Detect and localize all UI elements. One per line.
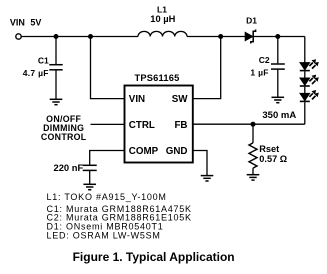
- svg-text:SW: SW: [172, 94, 189, 105]
- wire CTRL: [91, 123, 125, 125]
- wire Rset to ground: [252, 168, 254, 174]
- inductor L1: [138, 31, 187, 36]
- svg-text:CONTROL: CONTROL: [41, 132, 87, 142]
- ground C1: [50, 99, 63, 104]
- svg-text:4.7 µF: 4.7 µF: [23, 68, 49, 78]
- resistor Rset: [249, 143, 257, 168]
- node junction VIN pin: [88, 34, 93, 39]
- wire C1 branch: [55, 37, 57, 65]
- wire Rset top: [252, 124, 254, 143]
- capacitor C1: [49, 64, 62, 66]
- capacitor C3 220nF: [83, 164, 97, 166]
- input terminal VIN: [16, 34, 21, 39]
- op-amp U1 TPS61165 box: [125, 86, 193, 163]
- wire C2 branch: [277, 37, 279, 64]
- diode D1 (Schottky): [245, 32, 253, 40]
- ground C2: [272, 97, 285, 102]
- svg-text:CTRL: CTRL: [129, 120, 155, 131]
- wire input to inductor: [21, 36, 138, 38]
- svg-text:VIN: VIN: [10, 18, 25, 28]
- node junction C1: [54, 34, 59, 39]
- ground Rset: [247, 175, 260, 180]
- svg-text:220 nF: 220 nF: [53, 162, 83, 173]
- LED D4: [300, 91, 319, 102]
- ground GND pin: [201, 176, 214, 181]
- wire FB rail: [193, 123, 305, 125]
- svg-text:LED: OSRAM LW-W5SM: LED: OSRAM LW-W5SM: [47, 230, 161, 240]
- svg-text:Rset: Rset: [259, 144, 279, 154]
- svg-text:D1: D1: [246, 16, 257, 26]
- wire 220nF to ground: [89, 170, 91, 184]
- wire VIN pin: [91, 37, 125, 99]
- svg-text:0.57 Ω: 0.57 Ω: [259, 154, 287, 164]
- wire LED string top: [304, 37, 306, 63]
- svg-text:C2: C2: [259, 55, 270, 65]
- node junction SW: [218, 34, 223, 39]
- wire C1 to ground: [55, 70, 57, 99]
- wire diode to LED branch: [253, 36, 305, 38]
- node junction C2: [275, 34, 280, 39]
- svg-text:C1: C1: [38, 55, 49, 65]
- ground 220nF: [83, 184, 96, 189]
- wire SW: [193, 37, 221, 99]
- svg-text:Figure 1. Typical Application: Figure 1. Typical Application: [73, 250, 235, 264]
- wire LED2-LED3: [304, 87, 306, 94]
- LED D3: [300, 75, 319, 86]
- wire GND pin: [193, 151, 207, 176]
- svg-text:5V: 5V: [30, 18, 41, 28]
- svg-text:L1: L1: [157, 5, 167, 15]
- LED D2: [300, 60, 319, 71]
- wire LED1-LED2: [304, 71, 306, 78]
- svg-text:10 µH: 10 µH: [150, 14, 175, 24]
- wire COMP: [90, 151, 125, 165]
- wire inductor to diode: [187, 36, 245, 38]
- svg-text:350 mA: 350 mA: [262, 110, 296, 121]
- svg-text:1 µF: 1 µF: [250, 68, 268, 78]
- svg-text:GND: GND: [166, 146, 188, 157]
- svg-text:FB: FB: [174, 120, 187, 131]
- svg-text:L1: TOKO #A915_Y-100M: L1: TOKO #A915_Y-100M: [47, 192, 167, 202]
- wire LED string bottom: [304, 102, 306, 124]
- svg-text:COMP: COMP: [129, 146, 159, 157]
- capacitor C2: [271, 63, 285, 65]
- svg-text:VIN: VIN: [129, 94, 145, 105]
- wire C2 to ground: [277, 69, 279, 97]
- svg-text:TPS61165: TPS61165: [134, 73, 179, 83]
- node junction Rset: [251, 122, 256, 127]
